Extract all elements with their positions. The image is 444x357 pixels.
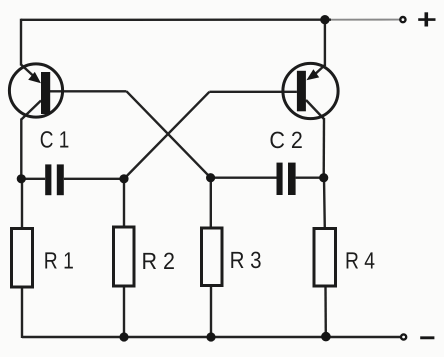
svg-text:C 1: C 1 [40, 126, 69, 152]
svg-text:R 1: R 1 [44, 247, 74, 273]
svg-text:R 2: R 2 [142, 248, 176, 274]
svg-text:C 2: C 2 [269, 127, 303, 153]
svg-text:R 4: R 4 [345, 247, 375, 273]
svg-text:R 3: R 3 [230, 247, 262, 273]
